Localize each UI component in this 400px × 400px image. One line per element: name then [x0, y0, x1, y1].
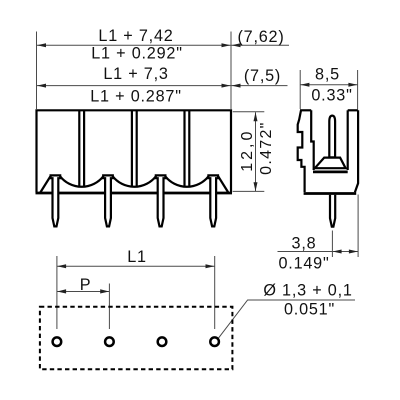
- side view bottom edge thick: [304, 192, 357, 195]
- front view divider 1 right line: [83, 111, 85, 186]
- svg-text:L1: L1: [127, 248, 147, 266]
- side view left wall outer profile: [298, 110, 305, 192]
- arrowhead 3,8 right: [349, 250, 358, 254]
- pcb outline dashed: [40, 307, 233, 370]
- dimension line L1+7,42: [37, 44, 289, 46]
- extension line left of side view: [299, 70, 301, 109]
- front view divider 1 left line: [78, 111, 80, 186]
- side view cavity floor: [313, 170, 348, 173]
- svg-text:0.149": 0.149": [278, 254, 329, 272]
- arrowhead L1 left: [57, 264, 66, 268]
- front view divider 3 right line: [188, 111, 190, 186]
- extension line hole 2: [108, 284, 110, 330]
- arrowhead L1 right: [206, 264, 215, 268]
- arrowhead (7,5): [232, 84, 241, 88]
- svg-text:8,5: 8,5: [315, 65, 340, 83]
- side view right wall top edge: [348, 109, 358, 111]
- arrowhead 8,5 left: [300, 83, 309, 87]
- arrowhead P right: [100, 289, 109, 293]
- svg-text:0.051": 0.051": [284, 301, 335, 319]
- front pin 3: [156, 175, 166, 226]
- front view housing outline: [37, 110, 232, 192]
- svg-text:0.33": 0.33": [311, 86, 352, 104]
- svg-text:P: P: [80, 276, 92, 294]
- extension line 3,8 left (pin center): [331, 231, 333, 258]
- front view divider 2 right line: [136, 111, 138, 186]
- front view left slant: [40, 176, 50, 193]
- front view scallop arc 3: [165, 176, 208, 186]
- dimension line 3,8: [278, 251, 359, 253]
- svg-text:3,8: 3,8: [292, 234, 317, 252]
- front pin 2: [103, 175, 113, 226]
- svg-text:12,0: 12,0: [239, 129, 256, 172]
- side view pin base trapezoid: [315, 158, 346, 169]
- extension line hole 4: [214, 256, 216, 329]
- dimension line 12,0: [255, 112, 257, 191]
- front view right slant: [218, 176, 228, 193]
- leader line to hole 4: [218, 300, 355, 338]
- arrowhead left dim2: [37, 84, 46, 88]
- arrowhead right dim1: [222, 43, 231, 47]
- arrowhead 12,0 bottom: [254, 182, 258, 191]
- hole 1: [53, 337, 62, 346]
- svg-text:Ø 1,3 + 0,1: Ø 1,3 + 0,1: [263, 281, 352, 299]
- hole 3: [158, 337, 167, 346]
- side view left wall top edge: [300, 109, 311, 111]
- svg-text:L1 + 7,42: L1 + 7,42: [98, 27, 173, 45]
- extension line 3,8 right: [357, 195, 359, 258]
- front view bottom edge thick: [36, 192, 233, 195]
- hole 4: [210, 337, 219, 346]
- arrowhead 12,0 top: [254, 112, 258, 121]
- extension line hole 1: [56, 256, 58, 329]
- arrowhead left dim1: [37, 43, 46, 47]
- front view scallop arc 2: [113, 176, 156, 186]
- arrowhead 8,5 right: [348, 83, 357, 87]
- dimension line P: [57, 291, 110, 293]
- extension line right of front view: [230, 32, 232, 110]
- arrowhead 3,8 left: [333, 250, 342, 254]
- svg-text:(7,62): (7,62): [237, 28, 284, 46]
- front view scallop arc 1: [60, 176, 103, 186]
- dimension line L1: [57, 265, 215, 267]
- extension line 12,0 top: [233, 111, 265, 113]
- dimension line L1+7,3: [37, 85, 288, 87]
- extension line right of side view: [357, 70, 359, 109]
- side view right wall outer edge: [355, 110, 358, 192]
- side view upper pin: [329, 116, 335, 158]
- arrowhead P left: [57, 289, 66, 293]
- side view left wall inner profile: [311, 110, 314, 170]
- hole 2: [105, 337, 114, 346]
- svg-text:L1 + 0.287": L1 + 0.287": [90, 87, 182, 105]
- svg-text:L1 + 0.292": L1 + 0.292": [91, 45, 183, 63]
- extension line 12,0 bottom: [233, 190, 265, 192]
- side view lower pin: [330, 195, 335, 227]
- front view divider 2 left line: [131, 111, 133, 186]
- svg-text:0.472": 0.472": [258, 121, 275, 175]
- svg-text:L1 + 7,3: L1 + 7,3: [103, 65, 168, 83]
- arrowhead right dim2: [222, 84, 231, 88]
- front pin 1: [51, 175, 61, 226]
- front pin 4: [208, 175, 218, 226]
- side view right wall inner edge: [347, 110, 349, 170]
- arrowhead (7,62): [232, 43, 241, 47]
- front view divider 3 left line: [183, 111, 185, 186]
- svg-text:(7,5): (7,5): [244, 67, 281, 85]
- extension line left of front view: [36, 32, 38, 110]
- dimension line 8,5: [300, 84, 357, 86]
